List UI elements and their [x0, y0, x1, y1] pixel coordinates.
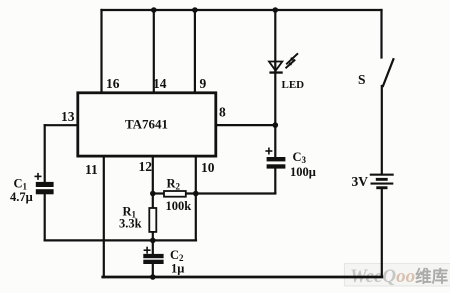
svg-text:9: 9 [200, 76, 207, 91]
svg-text:13: 13 [61, 109, 75, 124]
svg-text:16: 16 [106, 76, 120, 91]
svg-text:3V: 3V [352, 174, 369, 189]
svg-text:LED: LED [282, 79, 305, 91]
svg-text:100μ: 100μ [290, 165, 316, 179]
svg-text:3.3k: 3.3k [119, 217, 142, 231]
svg-text:1μ: 1μ [171, 262, 184, 276]
svg-text:100k: 100k [166, 199, 192, 213]
svg-text:4.7μ: 4.7μ [10, 190, 33, 204]
svg-text:10: 10 [201, 160, 215, 175]
svg-text:S: S [358, 72, 366, 87]
svg-text:8: 8 [219, 105, 226, 120]
svg-text:14: 14 [153, 76, 167, 91]
svg-text:12: 12 [139, 159, 153, 174]
svg-text:TA7641: TA7641 [125, 117, 168, 132]
svg-text:11: 11 [85, 162, 98, 177]
